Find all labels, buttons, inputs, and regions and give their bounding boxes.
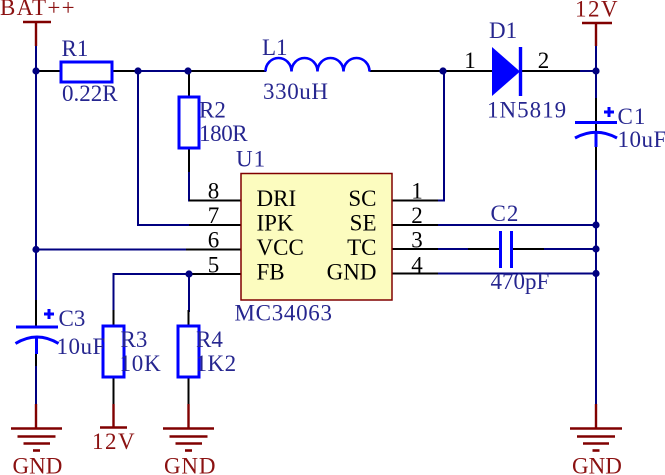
svg-text:SC: SC (348, 186, 376, 211)
svg-text:C1: C1 (618, 104, 647, 129)
svg-text:1N5819: 1N5819 (487, 98, 567, 123)
svg-text:5: 5 (208, 253, 220, 278)
svg-text:2: 2 (538, 48, 550, 73)
svg-text:6: 6 (208, 228, 220, 253)
svg-text:IPK: IPK (257, 211, 294, 236)
svg-text:C3: C3 (59, 306, 86, 331)
svg-text:L1: L1 (262, 35, 288, 60)
svg-text:MC34063: MC34063 (235, 301, 333, 326)
svg-text:R2: R2 (199, 98, 226, 123)
svg-text:GND: GND (13, 454, 63, 475)
svg-text:SE: SE (350, 211, 377, 236)
svg-text:GND: GND (572, 454, 622, 475)
svg-text:180R: 180R (199, 121, 248, 146)
svg-text:10uF: 10uF (57, 334, 106, 359)
svg-text:DRI: DRI (257, 186, 297, 211)
svg-text:10K: 10K (120, 351, 162, 376)
svg-text:U1: U1 (236, 147, 266, 172)
svg-text:3: 3 (411, 228, 423, 253)
svg-text:C2: C2 (491, 201, 520, 226)
svg-text:TC: TC (347, 235, 376, 260)
svg-text:8: 8 (208, 179, 220, 204)
svg-text:1: 1 (411, 179, 423, 204)
svg-text:0.22R: 0.22R (62, 81, 118, 106)
svg-text:2: 2 (411, 203, 423, 228)
svg-text:R3: R3 (121, 327, 148, 352)
svg-text:FB: FB (257, 260, 285, 285)
svg-text:1K2: 1K2 (196, 351, 237, 376)
svg-text:R1: R1 (62, 36, 89, 61)
svg-text:330uH: 330uH (263, 79, 329, 104)
svg-text:VCC: VCC (257, 235, 304, 260)
svg-text:4: 4 (411, 253, 423, 278)
svg-text:1: 1 (464, 48, 476, 73)
svg-text:R4: R4 (196, 327, 223, 352)
svg-text:GND: GND (327, 260, 377, 285)
svg-text:12V: 12V (575, 0, 619, 22)
svg-text:470pF: 470pF (491, 269, 550, 294)
svg-text:10uF: 10uF (618, 127, 665, 152)
svg-text:12V: 12V (92, 429, 136, 454)
svg-text:BAT++: BAT++ (0, 0, 76, 20)
svg-text:D1: D1 (489, 18, 517, 43)
svg-text:GND: GND (164, 454, 216, 475)
svg-text:7: 7 (208, 203, 220, 228)
